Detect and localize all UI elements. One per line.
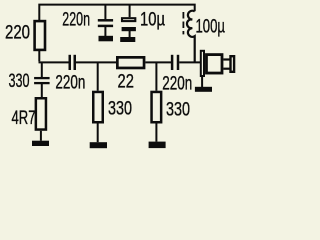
svg-text:330: 330	[108, 98, 132, 119]
resistor 220	[35, 21, 45, 50]
svg-text:220: 220	[5, 23, 30, 44]
ground bar C10u	[120, 37, 135, 42]
ground bar R330 second	[149, 142, 166, 149]
resistor 330 first	[93, 92, 103, 122]
ground bar C220n top	[99, 36, 114, 42]
svg-text:330: 330	[9, 71, 30, 92]
wire middle rail segment 2	[76, 61, 116, 63]
wire C10u lower lead	[129, 31, 131, 37]
wire junction to R330 first	[97, 63, 99, 91]
capacitor 330 shunt plates	[34, 78, 50, 83]
wire middle rail segment 1	[39, 61, 69, 63]
jack plug neck lines	[223, 60, 230, 69]
svg-text:220n: 220n	[62, 9, 90, 30]
ground bar 4R7	[32, 141, 49, 146]
capacitor 10u solid plate	[122, 27, 136, 31]
wire jack ground lead	[201, 77, 203, 87]
svg-text:220n: 220n	[55, 73, 85, 94]
ground bar jack	[195, 87, 212, 92]
wire middle rail segment 4	[179, 61, 200, 63]
ground bar R330 first	[90, 142, 107, 148]
svg-text:22: 22	[118, 72, 134, 93]
wire top rail	[39, 5, 194, 20]
svg-text:100µ: 100µ	[196, 16, 226, 37]
jack plug body	[206, 55, 222, 73]
wire 4R7 bottom lead	[40, 131, 42, 141]
wire R330 first bottom lead	[97, 123, 99, 142]
jack plug plate contact	[201, 51, 204, 76]
wire C220n top cap lower lead	[104, 27, 106, 36]
svg-text:220n: 220n	[162, 73, 192, 94]
capacitor 220n series second plates	[172, 55, 178, 70]
inductor core dashed line	[182, 12, 184, 34]
jack plug tip	[231, 56, 235, 72]
resistor 22	[117, 57, 144, 68]
wire R330 second bottom lead	[155, 123, 157, 141]
wire junction to R330 second	[155, 63, 157, 91]
wire shunt cap lead lower to 4R7	[41, 84, 43, 97]
wire shunt cap lead upper	[41, 63, 43, 77]
wire C10u top cap lead	[129, 5, 131, 17]
wire R220 bottom lead	[38, 51, 40, 61]
capacitor 10u polarized top plate	[122, 18, 135, 21]
wire middle rail segment 3	[145, 61, 171, 63]
svg-text:4R7: 4R7	[12, 108, 36, 129]
svg-text:10µ: 10µ	[140, 9, 165, 30]
resistor 4R7	[36, 98, 46, 129]
capacitor 220n to ground top plates	[98, 20, 113, 26]
svg-text:330: 330	[166, 99, 190, 120]
inductor 100u coil	[187, 11, 195, 63]
capacitor 220n series first plates	[70, 55, 75, 70]
resistor 330 second	[152, 92, 162, 122]
wire C220n top cap lead	[104, 5, 106, 19]
